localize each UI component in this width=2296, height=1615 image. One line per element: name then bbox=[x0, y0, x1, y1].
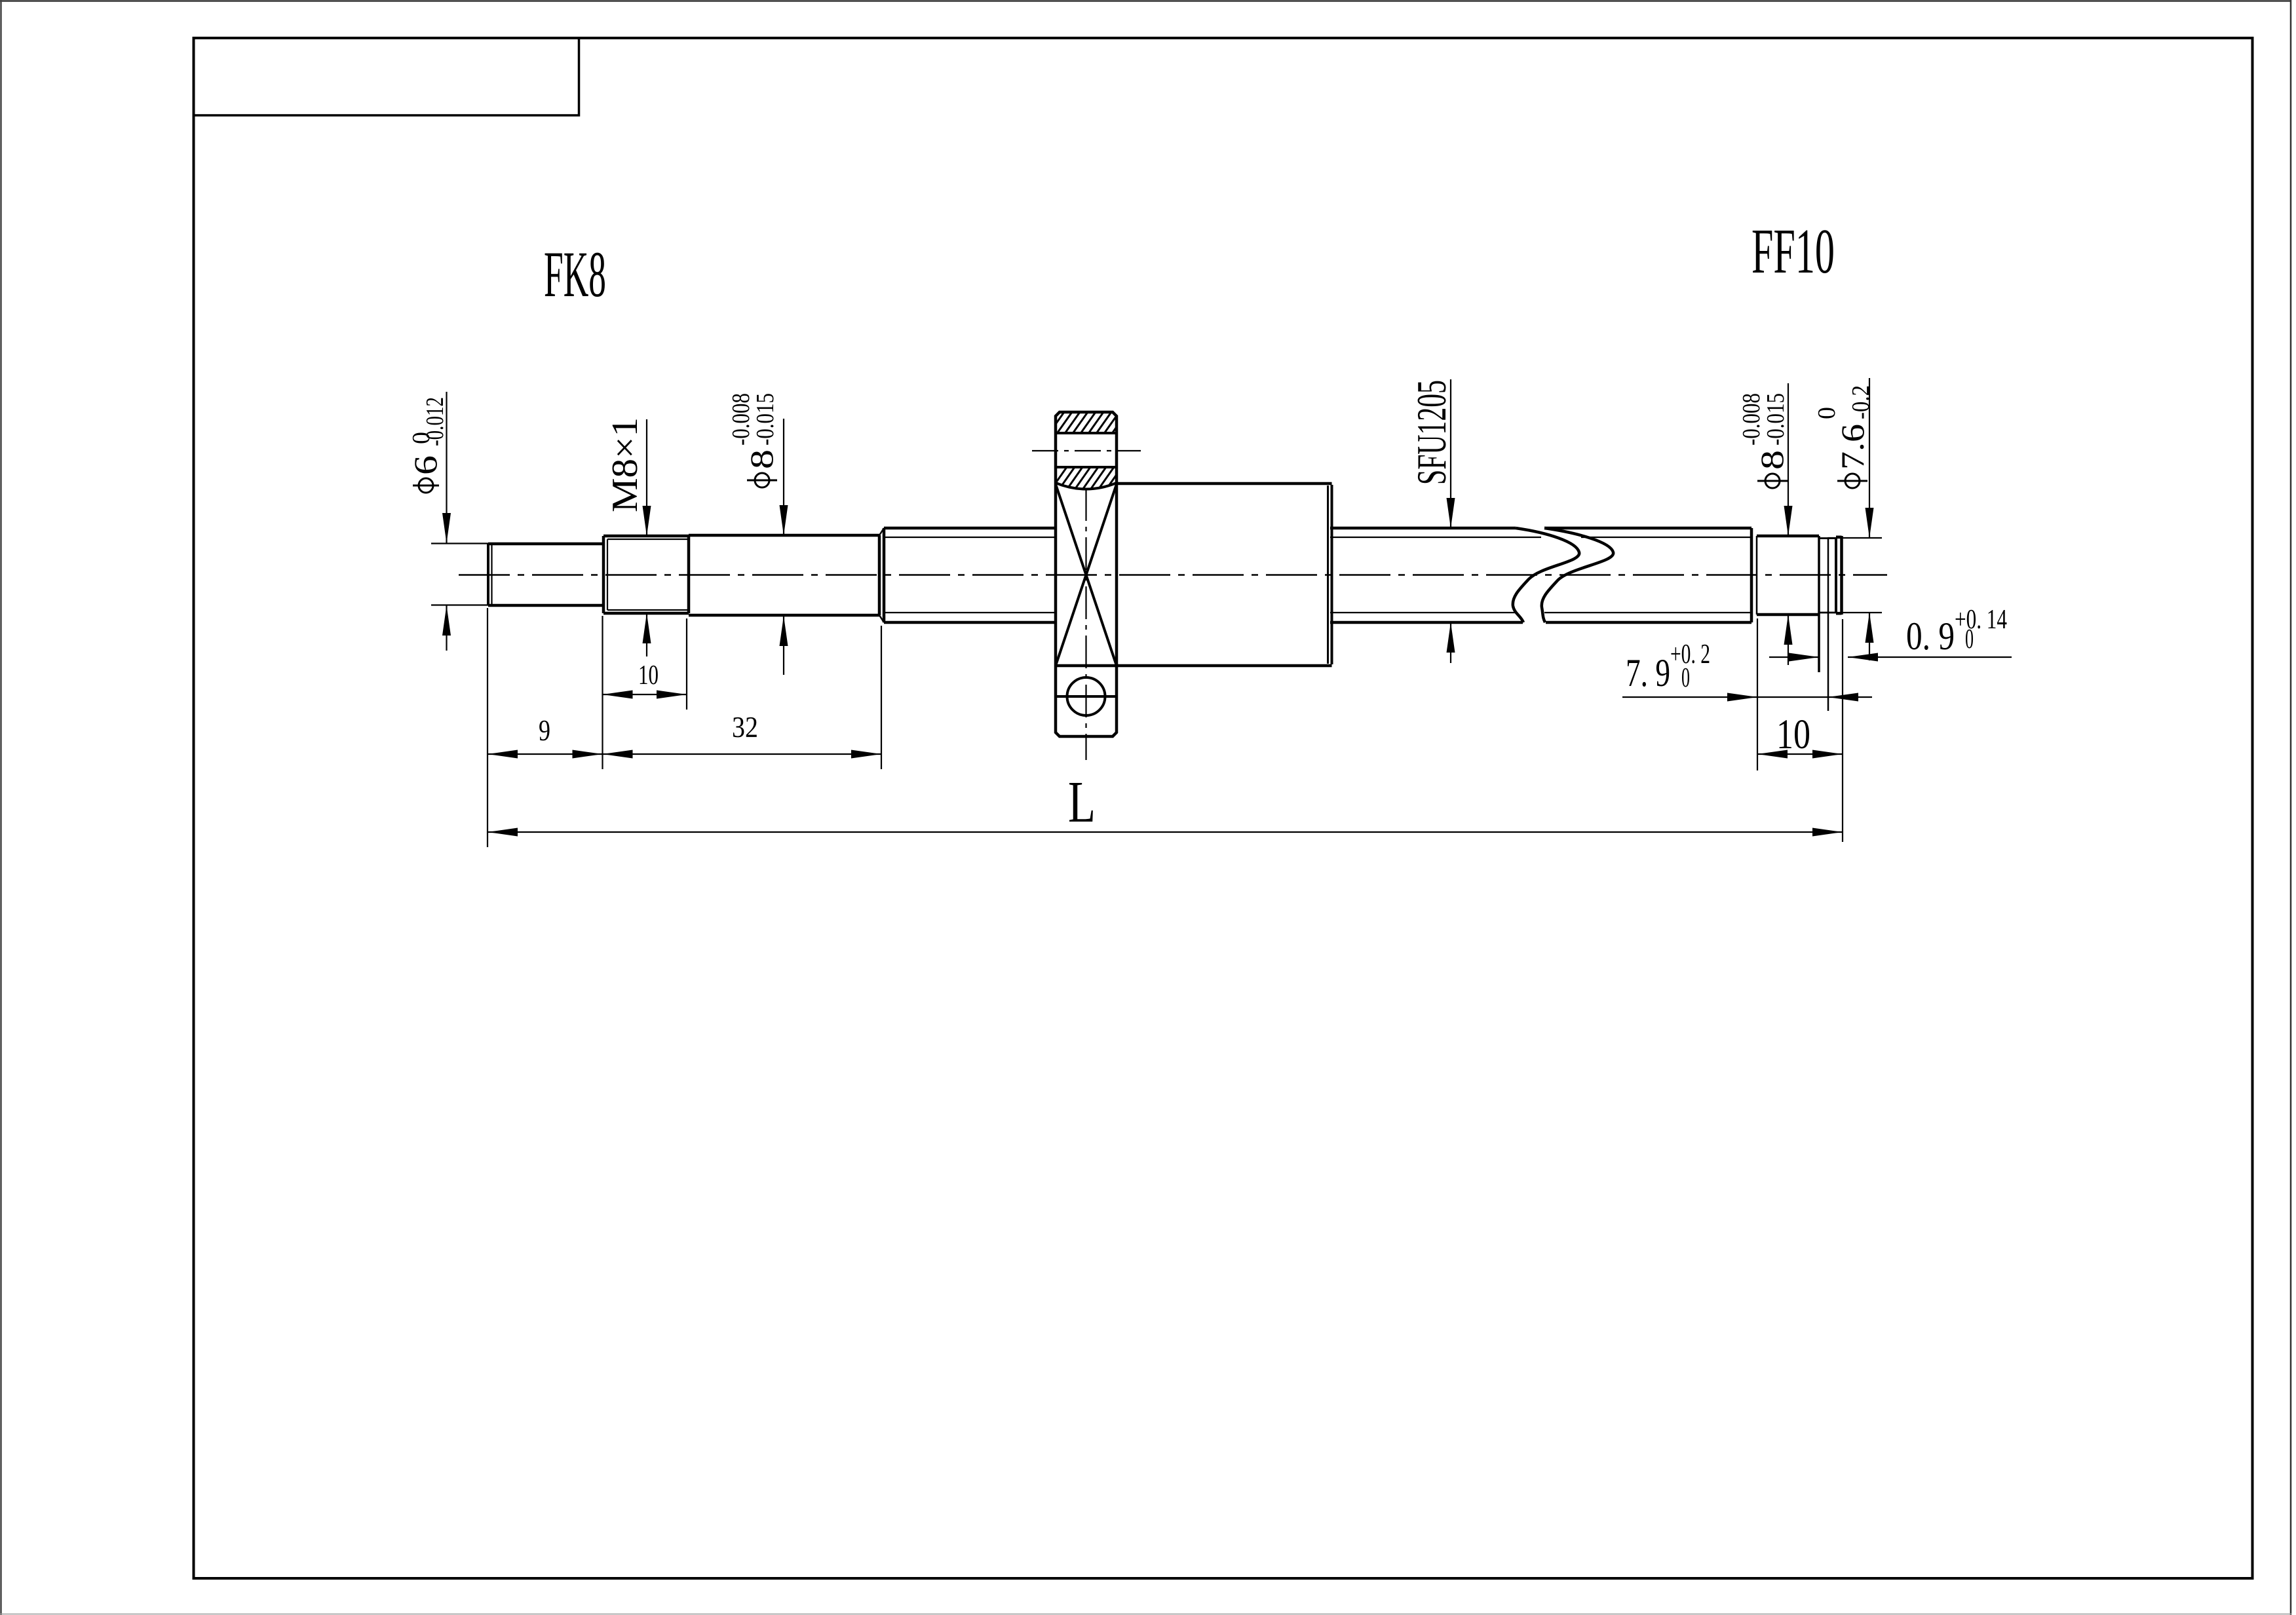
flange top hatch band lower line bbox=[1056, 432, 1117, 434]
extension line at screw start bbox=[881, 626, 882, 769]
M8 thread end line bbox=[687, 536, 691, 613]
svg-text:SFU1205: SFU1205 bbox=[1408, 380, 1455, 485]
dim phi8 left label bbox=[727, 393, 780, 487]
flange second hatch band bottom arc bbox=[1056, 483, 1117, 489]
flange X cross diagonal 1 bbox=[1056, 484, 1117, 666]
extension line at M8 step bbox=[602, 616, 603, 769]
svg-text:-0.008: -0.008 bbox=[1738, 393, 1765, 446]
dim 10 left : line + arrows + text bbox=[603, 694, 687, 695]
svg-text:+0. 14: +0. 14 bbox=[1955, 605, 2007, 635]
svg-text:M8×1: M8×1 bbox=[605, 417, 645, 512]
journal end face bbox=[1840, 536, 1843, 615]
phi7.6 extension lines bbox=[1828, 537, 1882, 539]
title block box (empty) bbox=[194, 38, 579, 115]
extension line at journal step (right) bbox=[1757, 618, 1758, 770]
break curve left bbox=[1513, 528, 1579, 622]
flange second hatch band top line bbox=[1056, 466, 1117, 468]
flange lug bolt hole circle bbox=[1067, 677, 1105, 715]
ball screw thread section left of nut : OD lines bbox=[884, 527, 1056, 530]
svg-text:-0.2: -0.2 bbox=[1847, 385, 1875, 419]
svg-text:+0. 2: +0. 2 bbox=[1670, 639, 1710, 670]
svg-text:6: 6 bbox=[407, 455, 444, 475]
page edge thin lines bbox=[0, 0, 2291, 2]
dim phi7.6 label bbox=[1813, 385, 1875, 488]
svg-text:7. 9: 7. 9 bbox=[1626, 651, 1670, 694]
dim phi6 extension lines bbox=[431, 542, 488, 544]
dim 10 right : line + arrows + text bbox=[1757, 753, 1843, 755]
groove root lines bbox=[1819, 537, 1837, 539]
extension line at M8 end bbox=[686, 618, 687, 710]
svg-text:FF10: FF10 bbox=[1751, 216, 1835, 286]
right journal phi8 outline bbox=[1757, 535, 1819, 538]
journal end chamfer line bbox=[1835, 537, 1837, 613]
dim phi7.6 dimension line + arrows bbox=[1869, 378, 1870, 538]
dim SFU1205 dimension line + arrows bbox=[1450, 379, 1451, 528]
extension line at journal end face bbox=[1842, 619, 1843, 842]
svg-text:-0.015: -0.015 bbox=[752, 393, 779, 446]
screw thread end line bbox=[1750, 528, 1753, 622]
nut body end face bbox=[1331, 485, 1333, 664]
dim 7.9 +0.2/0 : line + outside arrows + text bbox=[1622, 696, 1872, 698]
main centerline bbox=[459, 574, 1887, 576]
extension line at stub left end bbox=[487, 608, 488, 847]
dim phi8 right label bbox=[1738, 393, 1790, 488]
svg-text:10: 10 bbox=[638, 660, 659, 691]
svg-text:L: L bbox=[1068, 770, 1096, 835]
svg-text:0. 9: 0. 9 bbox=[1906, 615, 1955, 658]
svg-text:7.6: 7.6 bbox=[1834, 424, 1871, 470]
screw section between nut and break : OD bbox=[1330, 527, 1516, 530]
svg-text:0: 0 bbox=[1965, 624, 1974, 655]
M8x1 thread section outline bbox=[602, 536, 605, 613]
circlip groove right wall bbox=[1827, 537, 1829, 711]
svg-text:10: 10 bbox=[1776, 711, 1810, 758]
dim phi6 dimension line + arrows bbox=[446, 392, 447, 543]
svg-text:-0.012: -0.012 bbox=[421, 397, 449, 446]
screw section right of break : OD bbox=[1544, 527, 1751, 530]
svg-text:32: 32 bbox=[732, 711, 758, 744]
ball nut flange outline bbox=[1056, 412, 1117, 736]
dim M8 dimension line + arrows bbox=[646, 419, 647, 536]
break curve right bbox=[1542, 528, 1613, 622]
svg-text:8: 8 bbox=[743, 449, 780, 469]
dim 0.9 +0.14/0 : lines + outside arrows + text bbox=[1769, 656, 1819, 658]
svg-text:FK8: FK8 bbox=[544, 238, 606, 311]
svg-text:0: 0 bbox=[1681, 663, 1690, 693]
svg-text:0: 0 bbox=[1813, 407, 1841, 419]
flange vertical centerline bbox=[1085, 488, 1086, 760]
dim L : line + arrows + text bbox=[488, 831, 1843, 833]
svg-text:9: 9 bbox=[539, 714, 550, 747]
flange lug horizontal line through hole bbox=[1056, 695, 1117, 698]
shaft left stub (phi6) outline bbox=[488, 542, 604, 546]
flange X cross diagonal 2 bbox=[1056, 484, 1117, 666]
dim 32 : line + arrows + text bbox=[603, 753, 882, 755]
dim phi8 left dimension line + arrows bbox=[783, 419, 784, 535]
shaft left stub (phi6) end face bbox=[487, 544, 489, 605]
svg-text:8: 8 bbox=[1753, 450, 1790, 470]
svg-text:-0.008: -0.008 bbox=[727, 393, 755, 446]
screw start step bbox=[878, 535, 881, 615]
dim phi6 label bbox=[407, 397, 449, 493]
screw root thin lines between nut and break bbox=[1330, 537, 1541, 538]
ball nut body outline bbox=[1117, 482, 1332, 485]
dim 9 : line + arrows + text bbox=[488, 753, 603, 755]
phi8 journal section (left) outline bbox=[689, 534, 879, 537]
ball screw thread root thin lines (left of nut) bbox=[884, 537, 1056, 538]
screw root thin lines right of break bbox=[1581, 537, 1751, 538]
circlip groove left wall bbox=[1818, 536, 1820, 672]
svg-text:-0.015: -0.015 bbox=[1762, 393, 1789, 446]
dim phi8 right dimension line + arrows bbox=[1788, 383, 1789, 536]
flange bolt-hole section gap centerline bbox=[1032, 450, 1141, 451]
M8 thread root thin lines bbox=[607, 539, 689, 540]
